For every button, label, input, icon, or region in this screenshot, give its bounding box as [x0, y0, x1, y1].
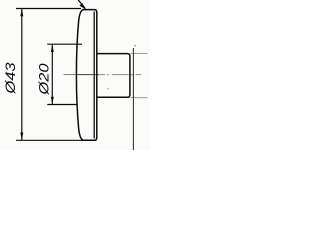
- extension line right of shaft bottom: [131, 97, 148, 99]
- dimension line Ø20: [51, 44, 53, 104]
- knob face edge line: [93, 12, 95, 139]
- svg-text:Ø43: Ø43: [3, 62, 19, 94]
- extension line bottom (Ø43): [16, 139, 96, 141]
- vertical extension line through shaft end: [132, 48, 134, 150]
- speck artifact near shaft root: [107, 88, 109, 90]
- leader arrowhead: [79, 3, 86, 10]
- extension line bottom (Ø20): [47, 104, 77, 106]
- leader line to knob face: [78, 0, 85, 9]
- arrowhead Ø43 top: [20, 9, 23, 17]
- arrowhead Ø20 top: [51, 44, 54, 52]
- extension line top (Ø43): [16, 8, 81, 10]
- extension line top (Ø20): [47, 43, 82, 45]
- center line (shaft axis): [64, 74, 76, 76]
- knob body outline (disc side view): [76, 10, 96, 141]
- arrowhead Ø43 bottom: [20, 133, 23, 141]
- dimension line Ø43: [21, 9, 23, 140]
- extension line right of shaft top: [131, 53, 148, 55]
- shaft boss outline: [98, 54, 130, 98]
- svg-text:Ø20: Ø20: [37, 63, 53, 95]
- arrowhead Ø20 bottom: [51, 97, 54, 105]
- tick above vertical extension line: [134, 45, 136, 46]
- paper background: [0, 0, 150, 150]
